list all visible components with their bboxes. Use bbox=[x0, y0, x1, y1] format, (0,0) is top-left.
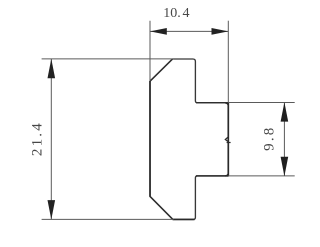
dim 10.4 arrow left bbox=[150, 28, 167, 35]
fillet nub at inner corner top bbox=[225, 103, 228, 106]
part outline (T-profile with chamfered left corners) bbox=[150, 59, 228, 219]
small notch marker on right edge bbox=[225, 137, 228, 142]
dim 9.8 arrow bottom bbox=[281, 157, 289, 176]
dim 10.4 arrow right bbox=[212, 28, 229, 35]
part step top edge bbox=[196, 102, 228, 104]
dim 21.4 arrow top bbox=[48, 59, 56, 78]
dim 21.4 extension line top bbox=[42, 58, 174, 60]
svg-text:9.8: 9.8 bbox=[262, 126, 278, 151]
svg-text:10.4: 10.4 bbox=[163, 6, 189, 21]
dim 10.4 extension line right bbox=[227, 21, 229, 103]
dim 9.8 arrow top bbox=[281, 102, 289, 121]
dim 21.4 extension line bottom bbox=[42, 218, 174, 220]
fillet nub at inner corner bottom bbox=[225, 173, 228, 176]
part step bottom edge bbox=[196, 175, 228, 177]
part right edge (thick) bbox=[227, 102, 229, 176]
dim 9.8 extension line bottom bbox=[228, 175, 294, 177]
bottom chamfer edge bbox=[150, 197, 173, 220]
dim 21.4 dimension line bbox=[50, 59, 52, 220]
dim 10.4 extension line left bbox=[149, 21, 151, 81]
svg-text:21.4: 21.4 bbox=[29, 121, 45, 156]
top chamfer edge bbox=[150, 59, 173, 81]
part left edge (thick) bbox=[149, 81, 151, 197]
part bottom edge (thick) bbox=[173, 218, 195, 220]
dim 10.4 dimension line bbox=[150, 30, 228, 32]
dim 9.8 dimension line bbox=[283, 103, 285, 176]
notch tick bbox=[227, 142, 231, 144]
dim 21.4 arrow bottom bbox=[48, 200, 56, 220]
dim 9.8 extension line top bbox=[228, 102, 294, 104]
